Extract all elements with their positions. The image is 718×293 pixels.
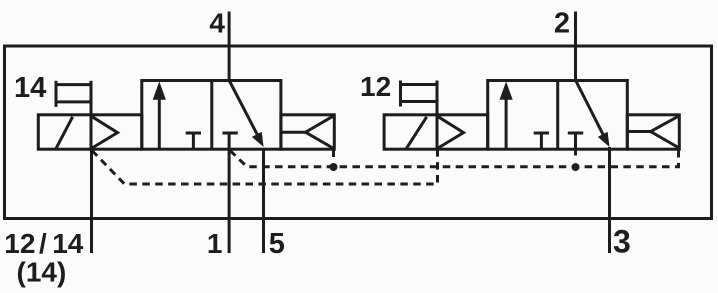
svg-text:14: 14 xyxy=(14,72,46,104)
solenoid U2 diagonal xyxy=(406,117,426,149)
pilot amplifier triangle xyxy=(92,117,117,148)
port 12/14 line xyxy=(90,149,93,253)
label 1 xyxy=(207,228,223,259)
right valve blocked port T1 xyxy=(534,133,549,149)
pilot port 12 symbol xyxy=(401,81,438,115)
label 14 xyxy=(14,72,46,104)
svg-text:2: 2 xyxy=(554,8,570,40)
right valve flow arrow up xyxy=(500,82,513,150)
left valve flow arrow up (1 to 4) xyxy=(153,82,166,150)
right valve blocked port T2 xyxy=(568,133,583,156)
right valve flow arrow diagonal (2 to 3) xyxy=(575,80,609,148)
pilot port 14 symbol xyxy=(56,81,91,115)
svg-text:(14): (14) xyxy=(17,257,67,288)
left valve body xyxy=(142,81,281,150)
svg-text:12: 12 xyxy=(360,71,391,102)
svg-text:12/14: 12/14 xyxy=(4,228,83,259)
port 4 line xyxy=(228,12,231,81)
label (14) xyxy=(17,257,67,288)
air spring box (right valve) xyxy=(627,115,679,149)
left valve position divider xyxy=(210,81,213,150)
valve manifold enclosure xyxy=(5,46,712,219)
left valve blocked port T2 xyxy=(222,133,237,149)
junction dot (right) xyxy=(572,163,580,171)
right valve body xyxy=(488,81,628,150)
svg-text:3: 3 xyxy=(613,224,631,260)
port 2 line xyxy=(574,12,577,81)
right valve position divider xyxy=(556,81,559,150)
pilot amplifier box (left valve) xyxy=(91,115,142,149)
air spring box (left valve) xyxy=(281,115,334,149)
solenoid U1 box (left valve) xyxy=(38,115,91,149)
label 3 xyxy=(613,224,631,260)
pilot line 14 dashed xyxy=(92,151,438,185)
solenoid U1 diagonal xyxy=(56,117,73,149)
label 5 xyxy=(269,228,285,260)
solenoid U2 box (right valve) xyxy=(384,115,437,149)
left valve blocked port T1 xyxy=(186,133,201,149)
port 5 line xyxy=(262,149,265,253)
svg-text:1: 1 xyxy=(207,228,223,259)
svg-text:4: 4 xyxy=(209,8,225,39)
left valve flow arrow diagonal (4 to 5) xyxy=(229,80,264,148)
pilot supply dashed line xyxy=(230,151,679,167)
port 2 label xyxy=(554,8,570,40)
pilot amplifier triangle (right valve) xyxy=(438,117,463,148)
svg-text:5: 5 xyxy=(269,228,285,260)
label 12/14 xyxy=(4,228,83,259)
label 12 xyxy=(360,71,391,102)
port 1 line xyxy=(228,149,231,253)
air spring pilot stub (left) xyxy=(332,149,335,157)
port 4 label xyxy=(209,8,225,39)
port 3 line xyxy=(608,147,611,253)
junction dot (left) xyxy=(330,163,338,171)
pilot amplifier box (right valve) xyxy=(437,115,488,149)
air spring triangle (right valve) xyxy=(627,116,678,147)
air spring triangle (left valve) xyxy=(281,116,333,148)
